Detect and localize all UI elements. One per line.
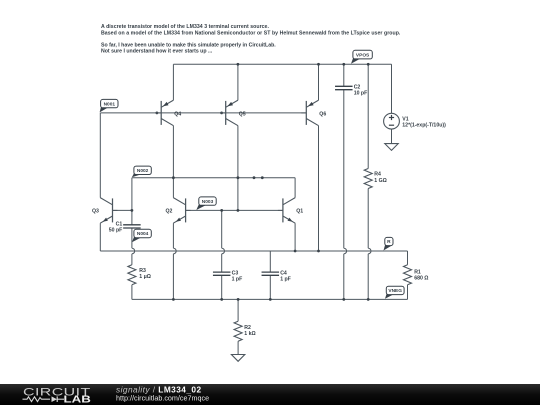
svg-text:Q5: Q5: [239, 112, 246, 118]
transistor Q2: [166, 198, 191, 224]
svg-text:R2: R2: [244, 325, 251, 331]
svg-text:N003: N003: [202, 199, 214, 205]
wire N002 riser: [131, 178, 133, 225]
wire left rail N001: [99, 113, 101, 198]
node flag VNEG: [385, 286, 404, 299]
svg-text:http://circuitlab.com/ce7mqce: http://circuitlab.com/ce7mqce: [116, 393, 209, 402]
node dots base wire: [131, 209, 134, 212]
wire C2 bottom long: [343, 90, 345, 249]
node dots bottom rail: [172, 298, 175, 301]
ground V1: [385, 144, 398, 151]
svg-text:Q3: Q3: [92, 208, 99, 214]
svg-text:C2: C2: [354, 84, 361, 90]
wire R1 bottom: [407, 285, 409, 300]
svg-text:Based on a model of the LM334: Based on a model of the LM334 from Natio…: [101, 30, 401, 36]
svg-text:V1: V1: [402, 116, 408, 122]
wire base rail right (Q2-Q1 base): [186, 209, 283, 211]
svg-text:50 pF: 50 pF: [109, 228, 123, 234]
resistor R2: [234, 321, 256, 341]
wire Q6 emitter riser: [318, 64, 320, 100]
wire N001 top: [100, 112, 156, 114]
wire C4 bottom: [269, 275, 271, 299]
wire R2 bottom to ground: [237, 341, 239, 354]
wire C3 bottom: [221, 275, 223, 299]
wire Q5 collector riser: [237, 126, 239, 178]
svg-text:1 kΩ: 1 kΩ: [244, 331, 255, 337]
capacitor C2: [335, 84, 367, 96]
wire C3 top: [221, 210, 223, 248]
svg-text:R: R: [387, 239, 391, 245]
node flag N001: [100, 99, 118, 112]
transistor Q5: [221, 100, 246, 126]
node dots base rail top: [156, 112, 159, 115]
svg-text:N002: N002: [137, 168, 149, 174]
svg-text:Q4: Q4: [174, 112, 181, 118]
resistor R3: [128, 265, 151, 285]
svg-text:So far, I have been unable to: So far, I have been unable to make this …: [101, 42, 276, 48]
wire Q1 collector riser: [294, 178, 296, 198]
wire R4 top: [367, 64, 369, 168]
wire Q5 emitter riser: [237, 64, 239, 100]
svg-text:10 pF: 10 pF: [354, 91, 368, 97]
wire Q2 emitter down: [172, 223, 174, 248]
wire base rail left (Q3 base): [113, 209, 132, 211]
svg-text:1 μΩ: 1 μΩ: [139, 274, 151, 280]
wire C4 top: [269, 251, 271, 272]
svg-text:LAB: LAB: [64, 394, 91, 405]
svg-text:C4: C4: [280, 270, 287, 276]
svg-text:VNEG: VNEG: [388, 288, 402, 294]
wire R rail: [100, 250, 407, 252]
transistor Q3: [92, 198, 118, 224]
wire N002 horizontal: [132, 177, 295, 179]
capacitor C3: [213, 270, 242, 282]
node flag N002: [132, 166, 151, 177]
wire Q3 emitter to R rail: [99, 223, 101, 251]
wire R1 top: [407, 251, 409, 265]
node flag N004: [132, 229, 151, 242]
wire A-to-base riser: [237, 178, 239, 211]
svg-text:12*(1-exp(-T/10u)): 12*(1-exp(-T/10u)): [402, 123, 446, 129]
svg-text:C3: C3: [232, 270, 239, 276]
node dots R rail: [294, 250, 297, 253]
svg-text:1 pF: 1 pF: [232, 277, 243, 283]
wire C2 top: [343, 64, 345, 86]
node flag VPOS: [351, 50, 372, 64]
svg-text:N004: N004: [137, 231, 149, 237]
capacitor C1: [109, 221, 141, 233]
wire VNEG bottom rail: [132, 298, 408, 300]
wire V1 top: [391, 64, 393, 113]
node flag N003: [196, 197, 216, 210]
svg-text:1 GΩ: 1 GΩ: [374, 178, 387, 184]
ground R2: [231, 355, 244, 362]
wire R4 bottom: [367, 189, 369, 249]
node flag R: [384, 237, 394, 250]
wire Q1 emitter down: [294, 223, 296, 251]
voltage source V1: [384, 113, 446, 129]
CircuitLab logo: [23, 385, 91, 405]
svg-text:Q2: Q2: [166, 208, 173, 214]
wire base rail top (Q4-Q6): [156, 112, 306, 114]
svg-text:1 pF: 1 pF: [280, 277, 291, 283]
wire R3 bottom: [131, 285, 133, 300]
transistor Q4: [156, 100, 181, 126]
svg-text:N001: N001: [104, 101, 116, 107]
wire R2 top: [237, 299, 239, 321]
transistor Q1: [278, 198, 303, 224]
svg-text:R4: R4: [374, 172, 381, 178]
node dots top rail: [237, 63, 240, 66]
svg-text:VPOS: VPOS: [356, 52, 370, 58]
wire C1 bottom to R3: [131, 228, 133, 248]
wire Q4 emitter riser: [172, 64, 174, 100]
wire top rail VPOS: [173, 63, 391, 65]
capacitor C4: [262, 270, 291, 282]
resistor R1: [404, 265, 429, 285]
svg-text:R3: R3: [139, 268, 146, 274]
wire Q4 collector to Q2 collector: [172, 126, 174, 198]
transistor Q6: [301, 100, 326, 126]
wire Q6 collector to R rail: [318, 126, 320, 251]
svg-text:Q6: Q6: [319, 112, 326, 118]
node dots wire A: [172, 176, 175, 179]
svg-text:Not sure I understand how it e: Not sure I understand how it ever starts…: [101, 49, 213, 55]
svg-text:A discrete transistor model of: A discrete transistor model of the LM334…: [101, 24, 269, 30]
svg-text:R1: R1: [414, 269, 421, 275]
resistor R4: [364, 169, 387, 189]
svg-text:Q1: Q1: [296, 208, 303, 214]
svg-text:C1: C1: [116, 221, 123, 227]
wire V1 bottom to ground: [391, 129, 393, 144]
svg-text:680 Ω: 680 Ω: [414, 276, 428, 282]
